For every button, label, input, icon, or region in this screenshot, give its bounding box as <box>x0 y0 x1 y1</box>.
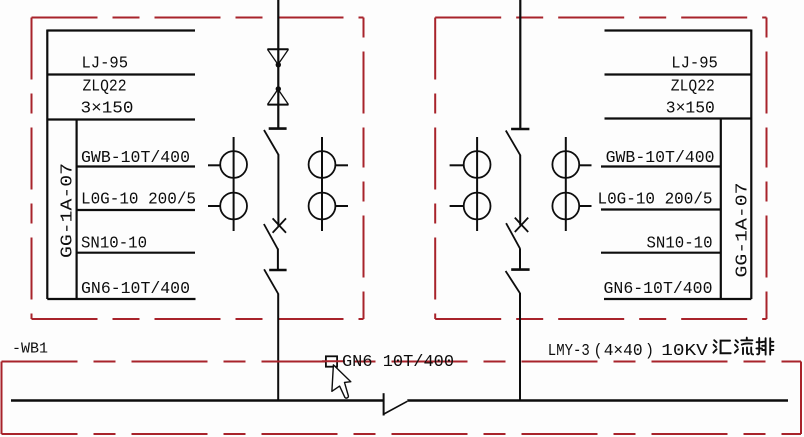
disconnector GN6 upper cell 2 <box>506 129 530 155</box>
svg-text:L0G-10 200/5: L0G-10 200/5 <box>81 191 196 210</box>
current transformer pair LQG-10 left cell 2 <box>450 137 491 231</box>
svg-text:3×150: 3×150 <box>81 100 134 119</box>
svg-text:SN10-10: SN10-10 <box>81 235 147 254</box>
svg-text:GG-1A-07: GG-1A-07 <box>59 163 78 258</box>
red line over square <box>322 360 345 362</box>
circuit breaker SN10-10 cell 1 (X contact) <box>264 218 286 249</box>
流 <box>735 340 738 352</box>
svg-text:10KV: 10KV <box>661 342 708 361</box>
排 <box>756 338 762 354</box>
disconnector GN6 upper cell 1 <box>264 129 287 155</box>
cubicle border (dashed) cell 1 GG-1A-07 <box>32 18 364 320</box>
svg-text:LJ-95: LJ-95 <box>82 55 129 74</box>
svg-text:): ) <box>645 342 654 361</box>
disconnector GN6 lower cell 1 <box>264 269 287 294</box>
svg-text:GG-1A-07: GG-1A-07 <box>734 183 753 278</box>
label table cell 2 <box>601 30 751 300</box>
svg-text:4×40: 4×40 <box>604 342 643 361</box>
current transformer pair LQG-10 left cell 1 <box>208 137 247 231</box>
wire breaker to lower disconnector cell 2 <box>519 248 521 269</box>
disconnector GN6 lower cell 2 <box>506 270 530 294</box>
cable termination (down triangle) cell 1 <box>267 49 288 67</box>
svg-text:3×150: 3×150 <box>666 100 715 119</box>
mouse cursor <box>332 365 351 398</box>
svg-text:-WB1: -WB1 <box>12 342 48 358</box>
wire: incoming feeder cell 1 <box>277 0 279 129</box>
Chinese characters 汇流排 (busbar) drawn as strokes <box>713 338 773 355</box>
svg-text:(: ( <box>594 342 603 361</box>
svg-text:L0G-10 200/5: L0G-10 200/5 <box>598 191 713 210</box>
circuit breaker SN10-10 cell 2 (X contact) <box>506 218 528 249</box>
svg-text:ZLQ22: ZLQ22 <box>671 78 715 97</box>
wire: incoming feeder cell 2 <box>519 0 521 129</box>
current transformer pair LQG-10 right cell 1 <box>309 137 348 231</box>
svg-text:GN6 10T/400: GN6 10T/400 <box>342 353 454 372</box>
cubicle border (dashed) cell 2 GG-1A-07 <box>435 18 766 320</box>
busbar LMY-3 with break symbol <box>11 393 788 415</box>
svg-text:GN6-10T/400: GN6-10T/400 <box>81 280 190 299</box>
svg-text:GN6-10T/400: GN6-10T/400 <box>604 280 713 299</box>
label table cell 1 <box>47 30 195 300</box>
svg-text:LJ-95: LJ-95 <box>671 55 718 74</box>
svg-text:ZLQ22: ZLQ22 <box>83 78 127 97</box>
terminal square symbol on GN6 label <box>326 356 337 366</box>
svg-text:GWB-10T/400: GWB-10T/400 <box>81 149 190 168</box>
svg-text:LMY-3: LMY-3 <box>548 342 590 361</box>
svg-text:GWB-10T/400: GWB-10T/400 <box>606 149 715 168</box>
wire between disconnector and breaker cell 2 <box>519 155 521 225</box>
cable termination (up triangle) cell 1 <box>267 86 288 104</box>
汇 <box>713 340 716 352</box>
busbar compartment border (dashed red) <box>2 362 802 435</box>
svg-text:SN10-10: SN10-10 <box>647 235 713 254</box>
wire to busbar cell 2 <box>519 293 521 401</box>
wire to busbar cell 1 <box>277 294 279 401</box>
wire between disconnector and breaker cell 1 <box>277 155 279 227</box>
current transformer pair LQG-10 right cell 2 <box>552 137 591 231</box>
wire breaker to lower disconnector cell 1 <box>277 249 279 271</box>
